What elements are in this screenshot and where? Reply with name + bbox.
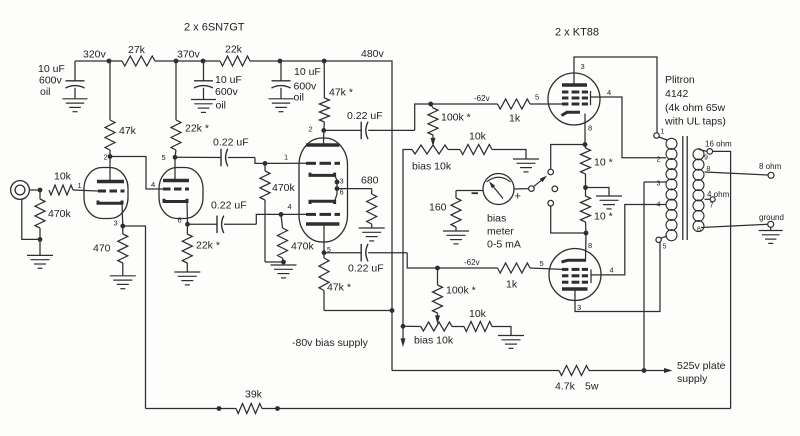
- svg-text:0.22 uF: 0.22 uF: [347, 110, 383, 122]
- ground under 160: [443, 231, 469, 244]
- svg-text:2 x KT88: 2 x KT88: [555, 27, 599, 39]
- KT88 lower cathode lead pin 8: [586, 233, 593, 260]
- node V1b pin 5: [162, 153, 178, 162]
- svg-text:supply: supply: [677, 373, 708, 385]
- KT88 lower cathode: [562, 260, 587, 262]
- KT88 upper screen wire pin 4: [600, 88, 665, 158]
- node V2 pin 6: [335, 186, 344, 196]
- ground input: [27, 239, 53, 268]
- switch wiper contact: [529, 186, 535, 192]
- svg-text:480v: 480v: [361, 48, 385, 60]
- resistor 470k input grid leak: [35, 190, 72, 239]
- V1b cathode lead to pin 6: [186, 202, 189, 225]
- node V2 pin 5: [322, 250, 327, 255]
- svg-text:10 uF: 10 uF: [38, 63, 65, 75]
- node KT88 lower cathode: [584, 231, 589, 236]
- arrow 525v plate supply: [644, 360, 726, 385]
- resistor 100k* lower: [433, 268, 476, 313]
- svg-text:100k *: 100k *: [446, 285, 476, 297]
- tube V1a 6SN7GT envelope: [84, 168, 128, 219]
- svg-text:470k: 470k: [291, 241, 315, 253]
- V1b plate bar: [163, 179, 189, 183]
- svg-text:100k *: 100k *: [441, 112, 471, 124]
- svg-text:470k: 470k: [48, 208, 72, 220]
- resistor 470k splitter grid 4 leak: [278, 214, 332, 262]
- wire switch bottom to lower KT88 cathode: [551, 206, 586, 233]
- node 320v: [83, 49, 111, 64]
- svg-text:3: 3: [577, 303, 581, 312]
- node input ground junction: [38, 237, 43, 242]
- transformer primary UL tap 2: [657, 157, 667, 164]
- resistor 47k V1a plate load: [105, 61, 137, 157]
- svg-text:7: 7: [710, 203, 714, 210]
- svg-text:8: 8: [588, 124, 592, 133]
- node splitter grid 4: [279, 202, 292, 217]
- terminal ground output: [759, 213, 784, 227]
- svg-text:3: 3: [657, 181, 661, 188]
- node junction 10uF #3: [278, 59, 283, 64]
- wire switch top to upper KT88 cathode: [551, 145, 585, 170]
- switch contact top: [548, 169, 554, 175]
- svg-text:bias 10k: bias 10k: [414, 335, 454, 347]
- wiper arrow upper: [431, 135, 436, 147]
- KT88 upper cathode lead pin 8: [585, 114, 592, 145]
- wire direct coupling V1a plate to V1b grid pin 4: [110, 157, 163, 190]
- label plus: [515, 191, 521, 203]
- svg-text:10 uF: 10 uF: [294, 66, 321, 78]
- node V2 pin 3: [335, 177, 344, 186]
- V2 cathode pin 6 lead: [335, 194, 337, 201]
- node V1b pin 6: [178, 216, 190, 227]
- resistor 10* upper cathode sense: [581, 145, 613, 188]
- svg-text:5: 5: [540, 259, 544, 268]
- wire cathodes to 680: [337, 188, 372, 190]
- node junction 10uF #2: [201, 59, 206, 64]
- wire 10k to V1 pin 1 grid: [73, 181, 98, 191]
- wire 10* junction to ground: [586, 188, 610, 196]
- KT88 upper cathode: [562, 112, 581, 115]
- svg-text:47k *: 47k *: [327, 282, 351, 294]
- wire 16 ohm tap to feedback line: [713, 151, 731, 408]
- KT88 lower plate bar: [562, 287, 588, 291]
- svg-text:meter: meter: [487, 226, 514, 238]
- V2 upper plate bar: [306, 143, 339, 147]
- resistor 22k* V1b cathode: [182, 224, 220, 271]
- svg-text:bias: bias: [487, 213, 506, 225]
- wire -80v bias feed line: [403, 150, 412, 327]
- svg-text:600v: 600v: [215, 86, 239, 98]
- ground under C2: [191, 100, 216, 113]
- svg-text:5w: 5w: [585, 381, 599, 393]
- svg-text:1: 1: [661, 129, 665, 136]
- KT88 upper grid row 3: [562, 103, 588, 106]
- svg-text:370v: 370v: [177, 49, 201, 61]
- svg-text:3: 3: [581, 62, 585, 71]
- svg-text:470k: 470k: [272, 182, 296, 194]
- svg-text:-62v: -62v: [474, 94, 490, 103]
- resistor 1k lower grid stopper: [438, 263, 531, 291]
- node input: [38, 188, 43, 193]
- ground lower bias: [498, 336, 524, 349]
- wire jog up to -62v node: [415, 104, 431, 130]
- ground upper bias: [513, 159, 539, 172]
- KT88 upper plate lead pin 3: [574, 57, 657, 133]
- svg-text:8: 8: [588, 241, 592, 250]
- svg-text:1: 1: [78, 181, 82, 190]
- svg-text:160: 160: [429, 202, 447, 214]
- svg-text:4: 4: [607, 88, 611, 97]
- node V1a pin 3 cathode: [114, 219, 126, 229]
- node 525v: [642, 368, 647, 373]
- V1a plate lead to pin 2: [109, 157, 111, 182]
- svg-text:0-5 mA: 0-5 mA: [487, 239, 521, 251]
- capacitor C1 10uF 600v oil: [38, 61, 85, 99]
- V1a grid dashes: [98, 190, 125, 193]
- V2 lower cathode: [310, 201, 335, 204]
- svg-text:3: 3: [340, 177, 344, 186]
- svg-text:-80v bias supply: -80v bias supply: [292, 337, 369, 349]
- svg-text:10k: 10k: [54, 171, 72, 183]
- wire 160 to meter minus: [456, 190, 483, 192]
- svg-text:2: 2: [309, 125, 313, 134]
- wire meter plus to wiper: [514, 188, 529, 190]
- resistor 4.7k 5w dropper: [555, 366, 599, 393]
- ground under 470k pair: [271, 262, 297, 278]
- svg-text:0.22 uF: 0.22 uF: [213, 137, 249, 149]
- svg-text:oil: oil: [40, 86, 51, 98]
- svg-text:16 ohm: 16 ohm: [705, 140, 732, 149]
- svg-text:22k *: 22k *: [196, 240, 220, 252]
- tube V2 splitter envelope: [299, 138, 348, 242]
- svg-text:2: 2: [104, 153, 108, 162]
- KT88 lower screen wire pin 4: [601, 205, 665, 275]
- ground under C3: [269, 99, 294, 112]
- label Plitron 4142: [664, 74, 726, 128]
- KT88 lower grid row 1: [562, 268, 588, 271]
- svg-text:680: 680: [361, 175, 379, 187]
- resistor 10k lower bias: [464, 308, 492, 332]
- svg-text:with UL taps): with UL taps): [664, 116, 726, 128]
- resistor 22k plate supply: [220, 44, 250, 67]
- wire B+ 480v rail middle segment: [155, 60, 220, 62]
- input jack: [11, 181, 40, 200]
- label: section title 2 x 6SN7GT: [184, 22, 245, 34]
- V2 upper plate lead pin 2: [323, 130, 325, 145]
- svg-text:bias 10k: bias 10k: [412, 161, 452, 173]
- transformer secondary 8 ohm tap 8: [705, 166, 768, 175]
- capacitor C2 10uF 600v oil: [194, 61, 242, 112]
- V1a cathode: [98, 201, 122, 204]
- ground under 680: [359, 228, 385, 241]
- potentiometer bias 10k lower: [403, 322, 464, 347]
- svg-text:+: +: [515, 191, 521, 203]
- svg-text:600v: 600v: [39, 75, 63, 87]
- svg-text:1: 1: [284, 153, 288, 162]
- wire cathode junction: [336, 180, 338, 194]
- svg-text:22k *: 22k *: [185, 123, 209, 135]
- transformer secondary 16 ohm tap 9: [699, 140, 733, 162]
- KT88 upper grid row 1: [562, 91, 588, 94]
- svg-text:5: 5: [535, 93, 539, 102]
- svg-text:5: 5: [162, 153, 166, 162]
- node splitter grid 1: [263, 153, 289, 166]
- V1b grid dashes: [163, 188, 189, 191]
- transformer primary terminal 1: [654, 129, 667, 141]
- wire jog to grid 4 node: [256, 214, 281, 224]
- svg-text:47k *: 47k *: [329, 87, 353, 99]
- resistor 470 cathode: [93, 226, 128, 275]
- transformer secondary common tap 6: [697, 224, 768, 233]
- node 39k left: [217, 406, 222, 411]
- svg-text:1k: 1k: [506, 279, 518, 291]
- resistor 160 meter shunt: [429, 191, 461, 231]
- svg-text:0.22 uF: 0.22 uF: [348, 263, 384, 275]
- V1b cathode: [164, 199, 187, 202]
- KT88 lower plate lead pin 3: [575, 242, 660, 312]
- capacitor 0.22uF coupling upper: [175, 137, 255, 167]
- label: section title 2 x KT88: [555, 27, 599, 39]
- KT88 lower grid row 2: [562, 274, 588, 277]
- resistor 10k upper bias: [460, 131, 492, 155]
- wire 47k* lower to B+ line: [324, 308, 394, 313]
- svg-text:Plitron: Plitron: [665, 74, 695, 86]
- svg-text:6: 6: [697, 227, 701, 234]
- KT88 lower grid row 3: [562, 281, 588, 284]
- V1a plate bar: [97, 180, 124, 184]
- capacitor 0.22uF to upper KT88: [324, 110, 415, 139]
- transformer secondary 4 ohm tap 7: [705, 190, 730, 210]
- wire node to splitter grid 1: [265, 162, 306, 164]
- svg-text:10 *: 10 *: [594, 211, 613, 223]
- switch contact bottom: [548, 200, 554, 206]
- svg-text:oil: oil: [216, 100, 227, 112]
- wire 525v supply line: [392, 370, 559, 372]
- transformer primary center tap 3: [644, 181, 666, 188]
- node V1a pin 2: [104, 153, 113, 162]
- svg-text:ground: ground: [759, 213, 784, 222]
- svg-text:2 x 6SN7GT: 2 x 6SN7GT: [184, 22, 245, 34]
- ground under 22k* cathode: [174, 272, 200, 285]
- node 39k right: [275, 406, 280, 411]
- wire B+ 480v rail right segment and drop to 525v feed: [250, 61, 392, 371]
- ground 10* junction: [596, 196, 622, 209]
- resistor 10* lower cathode sense: [581, 188, 613, 234]
- transformer core: [683, 136, 687, 240]
- svg-text:(4k ohm 65w: (4k ohm 65w: [665, 102, 726, 114]
- svg-text:8 ohm: 8 ohm: [759, 162, 782, 171]
- ground under 470: [110, 276, 136, 289]
- transformer primary terminal 5: [656, 236, 667, 251]
- svg-text:525v plate: 525v plate: [677, 360, 726, 372]
- wire node to splitter grid 4: [281, 213, 306, 215]
- V2 grid 4 dashes: [306, 213, 340, 216]
- svg-text:39k: 39k: [245, 389, 263, 401]
- V2 lower plate bar: [306, 222, 339, 226]
- svg-text:4: 4: [657, 202, 661, 209]
- V1b plate lead to pin 5: [174, 157, 176, 180]
- resistor 470k splitter grid 1 leak: [260, 163, 296, 262]
- svg-text:0.22 uF: 0.22 uF: [211, 200, 247, 212]
- wire 10k to ground lower: [492, 327, 511, 336]
- V2 cathode pin 3 lead: [335, 175, 337, 180]
- wire feedback tap from V1a cathode: [123, 226, 146, 409]
- resistor 1k upper grid stopper: [431, 99, 530, 125]
- svg-text:47k: 47k: [119, 125, 137, 137]
- wire 39k to 16 ohm tap line: [262, 408, 731, 410]
- potentiometer bias 10k upper: [412, 145, 460, 173]
- transformer secondary winding: [693, 149, 704, 232]
- V2 grid 1 dashes: [306, 162, 340, 165]
- svg-text:4 ohm: 4 ohm: [707, 190, 730, 199]
- bias meter M1: [483, 174, 514, 205]
- label 480v: [361, 48, 385, 60]
- resistor 680 common cathode: [361, 175, 379, 228]
- resistor 10k grid stopper: [49, 171, 73, 196]
- tube KT88 lower envelope: [549, 249, 601, 301]
- wire jog to grid 1 node: [255, 158, 265, 164]
- node -62v upper: [428, 94, 489, 106]
- node 370v: [174, 49, 201, 64]
- wire 4.7k to supply node: [589, 370, 644, 372]
- wiper arrow lower: [435, 313, 440, 324]
- svg-text:320v: 320v: [83, 49, 107, 61]
- svg-text:4.7k: 4.7k: [555, 381, 576, 393]
- wire 1k to lower KT88 grid pin 5: [530, 259, 562, 269]
- svg-text:1k: 1k: [509, 113, 521, 125]
- svg-text:10k: 10k: [469, 308, 487, 320]
- wire 1k to KT88 grid pin 5: [530, 93, 562, 105]
- V2 upper cathode: [310, 173, 335, 176]
- V1a cathode lead to pin 3: [121, 203, 124, 226]
- transformer primary winding: [666, 138, 677, 240]
- ground under C1: [63, 99, 88, 112]
- svg-text:10 *: 10 *: [594, 157, 613, 169]
- svg-text:470: 470: [93, 243, 111, 255]
- svg-text:-62v: -62v: [464, 258, 480, 267]
- resistor 100k* upper: [428, 104, 471, 135]
- wire jog down to lower -62v node: [407, 253, 437, 268]
- tube V1b 6SN7GT envelope: [159, 168, 203, 219]
- svg-text:27k: 27k: [128, 44, 146, 56]
- svg-text:oil: oil: [294, 92, 305, 104]
- node 10* junction: [583, 185, 588, 190]
- node 470k pair ground junction: [265, 260, 286, 265]
- wire B+ 480v rail left segment: [75, 60, 122, 62]
- label bias meter 0-5 mA: [487, 213, 521, 251]
- tube KT88 upper envelope: [548, 73, 600, 125]
- svg-text:2: 2: [657, 157, 661, 164]
- svg-text:6: 6: [178, 216, 182, 225]
- node -62v lower: [435, 258, 479, 270]
- node KT88 upper cathode: [583, 142, 588, 147]
- switch contact middle: [552, 186, 558, 192]
- resistor 22k* V1b plate load: [171, 61, 209, 157]
- svg-text:8: 8: [707, 166, 711, 173]
- wire jack sleeve to ground: [22, 199, 40, 239]
- KT88 upper grid row 2: [562, 97, 588, 100]
- V2 lower plate lead pin 5: [323, 224, 325, 253]
- svg-text:3: 3: [114, 219, 118, 228]
- svg-text:4142: 4142: [665, 88, 689, 100]
- wire 10k to ground upper: [492, 150, 526, 159]
- resistor 47k* lower: [319, 253, 351, 311]
- label -80v bias supply: [292, 337, 369, 349]
- ground under output terminal: [759, 227, 783, 243]
- svg-text:4: 4: [288, 202, 292, 211]
- svg-text:4: 4: [610, 266, 614, 275]
- KT88 lower screen bracket: [591, 270, 601, 284]
- node V2 pin 2: [309, 125, 327, 134]
- resistor 27k plate supply: [122, 44, 155, 66]
- svg-text:10 uF: 10 uF: [215, 74, 242, 86]
- svg-text:22k: 22k: [225, 44, 243, 56]
- wire plate supply to center tap: [643, 182, 645, 371]
- transformer primary UL tap 4: [657, 202, 667, 209]
- capacitor 0.22uF to lower KT88: [324, 244, 407, 275]
- label minus: [472, 192, 479, 194]
- svg-text:10k: 10k: [469, 131, 487, 143]
- terminal 8 ohm output: [759, 162, 782, 178]
- arrow -80v supply stub: [401, 326, 406, 347]
- svg-text:5: 5: [663, 244, 667, 251]
- KT88 upper screen bracket: [591, 91, 600, 105]
- svg-text:4: 4: [151, 180, 155, 189]
- resistor 47k* upper plate load: [319, 59, 353, 131]
- wire feedback bottom line: [146, 408, 237, 410]
- capacitor C3 10uF 600v oil: [272, 61, 321, 104]
- svg-text:9: 9: [704, 155, 708, 162]
- switch wiper arrow: [534, 176, 548, 187]
- capacitor 0.22uF coupling lower: [188, 200, 257, 234]
- node -80v lower: [401, 324, 406, 329]
- resistor 39k feedback: [236, 389, 263, 414]
- KT88 upper plate bar: [562, 83, 587, 87]
